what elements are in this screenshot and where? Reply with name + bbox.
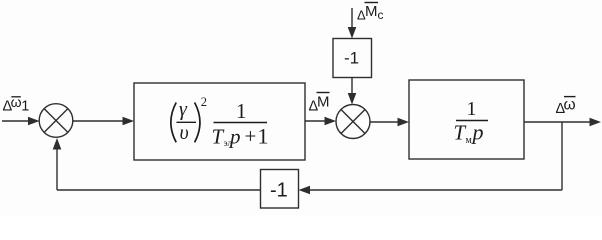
- wire feedback up: [53, 138, 62, 190]
- summing junction S1: [39, 104, 73, 138]
- svg-text:p: p: [471, 120, 484, 145]
- wire W1 to S2: [305, 117, 336, 126]
- block W1: [134, 83, 305, 160]
- svg-text:1: 1: [21, 99, 29, 115]
- svg-text:+: +: [245, 124, 257, 148]
- svg-text:p: p: [228, 125, 241, 149]
- svg-text:γ: γ: [179, 99, 188, 121]
- svg-text:1: 1: [258, 124, 269, 149]
- wire input: [2, 117, 40, 126]
- wire S1 to W1: [73, 117, 134, 126]
- block -1 feedback: [261, 170, 299, 209]
- svg-text:M: M: [365, 3, 378, 20]
- svg-text:1: 1: [467, 98, 477, 120]
- wire disturbance input: [348, 8, 357, 39]
- svg-text:υ: υ: [180, 122, 189, 144]
- svg-text:c: c: [378, 8, 384, 22]
- input label dw1: [3, 94, 30, 115]
- block W2: [409, 80, 524, 159]
- block W1 formula: [171, 95, 269, 149]
- output label dw: [556, 97, 576, 118]
- wire S2 to W2: [370, 118, 409, 127]
- wire -1 to S2: [348, 78, 357, 105]
- svg-text:ω: ω: [564, 97, 576, 114]
- wire feedback down: [561, 122, 563, 190]
- svg-text:M: M: [317, 94, 330, 111]
- node dM label: [309, 93, 330, 115]
- svg-text:2: 2: [201, 95, 207, 109]
- wire feedback bottom right: [299, 186, 563, 195]
- block W2 formula: [454, 98, 489, 146]
- wire output: [524, 118, 601, 127]
- svg-text:-1: -1: [270, 180, 288, 202]
- svg-text:м: м: [466, 135, 473, 146]
- disturbance label dMc: [357, 3, 384, 23]
- wire feedback left: [57, 189, 261, 191]
- summing junction S2: [336, 105, 370, 139]
- svg-text:-1: -1: [344, 49, 359, 68]
- block -1 top: [333, 39, 372, 78]
- svg-text:1: 1: [236, 99, 247, 123]
